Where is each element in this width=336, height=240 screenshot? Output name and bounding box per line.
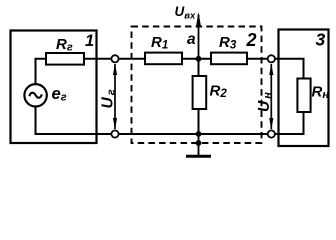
generator block box 1 (11, 31, 97, 144)
Uвх arrow (196, 12, 201, 59)
ground (186, 134, 211, 156)
Uг voltage double arrow (113, 64, 117, 130)
resistor R3 (211, 53, 247, 65)
junction dot R2 bottom (196, 131, 202, 137)
source eг (24, 84, 46, 106)
Uн voltage double arrow (269, 64, 273, 130)
resistor R2 (193, 76, 207, 109)
resistor Rг (46, 53, 84, 65)
wire Rг left lead down to source (36, 59, 48, 85)
node a junction dot (196, 56, 202, 62)
svg-text:a: a (187, 31, 196, 48)
wire source bottom to lower-left terminal (36, 106, 113, 134)
wire bottom rail to box 3 and up to Rн (112, 111, 304, 134)
terminal lower-left (111, 130, 118, 137)
svg-text:2: 2 (246, 30, 257, 50)
wire top rail: Rг to box 3 and down to Rн (83, 59, 304, 80)
svg-text:3: 3 (316, 30, 326, 50)
svg-text:1: 1 (85, 32, 94, 50)
resistor Rн (297, 79, 310, 113)
terminal upper-right (268, 55, 275, 62)
terminal upper-left (111, 55, 118, 62)
terminal lower-right (268, 130, 275, 137)
junction dot on dashed edge (196, 140, 202, 146)
resistor R1 (145, 53, 182, 65)
two-port dashed box 2 (132, 27, 262, 144)
wire node a down through R2 to bottom rail (198, 59, 200, 134)
load block box 3 (279, 30, 329, 147)
